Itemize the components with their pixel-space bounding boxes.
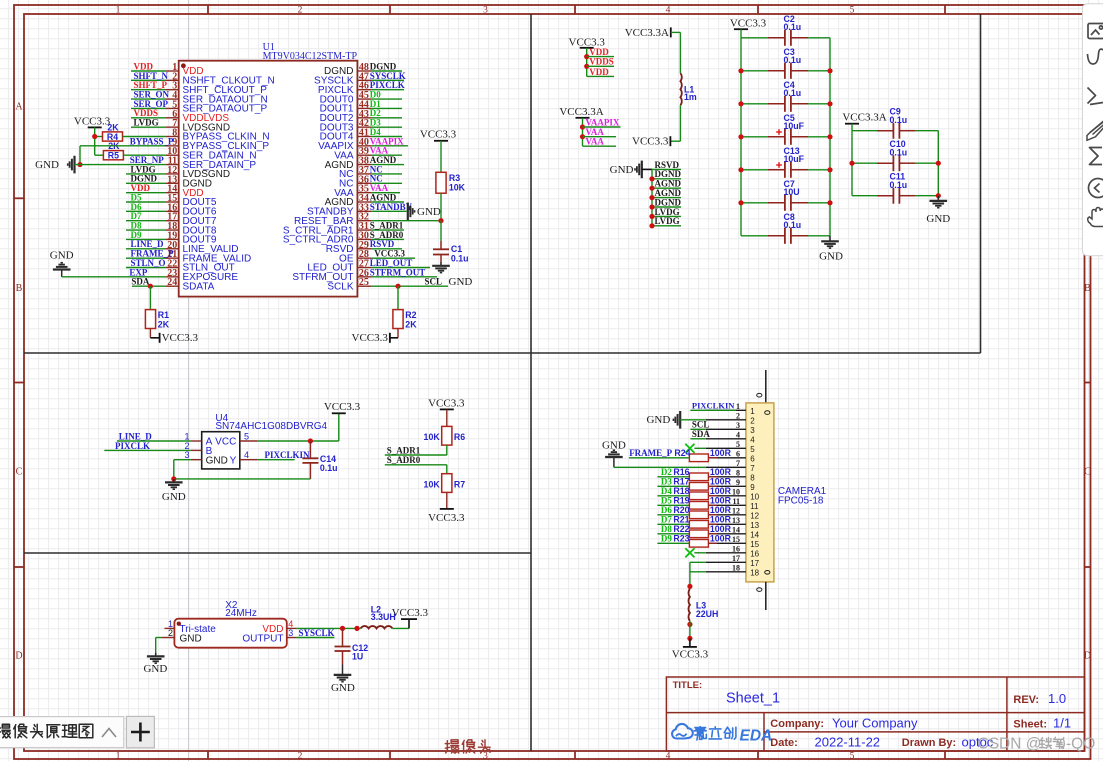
U1 pin 41 DOUT4	[357, 135, 371, 137]
capacitor C10	[852, 162, 877, 164]
wire VCC to VCC3.3	[257, 440, 339, 442]
svg-text:15: 15	[732, 535, 740, 544]
capacitor C11	[852, 195, 877, 197]
svg-text:100R: 100R	[710, 467, 732, 477]
capacitor C4	[741, 103, 768, 105]
svg-text:D2: D2	[661, 467, 672, 477]
svg-text:7: 7	[736, 459, 740, 468]
svg-text:Your Company: Your Company	[832, 716, 918, 731]
svg-text:24MHz: 24MHz	[225, 608, 257, 619]
wire gnd net AGND row3	[652, 187, 681, 189]
U1 pin 33 STANDBY	[357, 210, 371, 212]
svg-text:3: 3	[483, 5, 488, 15]
svg-text:2K: 2K	[405, 319, 417, 329]
U1 pin 27 LED_OUT	[357, 266, 371, 268]
toolbar icon rotate	[1089, 179, 1103, 198]
svg-text:100R: 100R	[710, 496, 732, 506]
svg-text:Date:: Date:	[770, 737, 798, 749]
X2 pin 4 VDD	[287, 627, 297, 629]
power flag VCC3.3 below R7	[446, 492, 448, 509]
svg-text:0.1u: 0.1u	[784, 88, 802, 98]
U1 pin 31 S_CTRL_ADR1	[357, 229, 371, 231]
wire gnd net DGND row5	[652, 206, 681, 208]
wire Y PIXCLKIN	[257, 459, 295, 461]
svg-text:EDA: EDA	[740, 727, 773, 744]
svg-text:VCC3.3A: VCC3.3A	[625, 27, 669, 39]
junction left rail row C13	[738, 167, 743, 172]
junction VDD	[584, 54, 589, 59]
junction right rail row C4	[827, 101, 832, 106]
junction left rail row C4	[738, 101, 743, 106]
U1 pin 5 SER_DATAOUT_P	[165, 107, 178, 109]
svg-text:PIXCLKIN: PIXCLKIN	[265, 450, 311, 460]
svg-text:11: 11	[750, 502, 759, 511]
wire VAA net	[583, 136, 617, 138]
CAMERA1 pin 10 stub	[706, 495, 746, 497]
wire pin38	[371, 164, 404, 166]
svg-text:100R: 100R	[710, 448, 732, 458]
ground GND below cap bank 2	[937, 196, 939, 201]
logo JLCEDA text	[694, 727, 706, 741]
wire gnd pin2	[680, 419, 706, 421]
svg-text:SDA: SDA	[692, 429, 711, 439]
svg-text:7: 7	[750, 464, 755, 473]
wire pin29	[371, 248, 402, 250]
svg-text:12: 12	[750, 511, 759, 520]
svg-text:2022-11-22: 2022-11-22	[815, 735, 881, 750]
wire S_ADR0	[385, 464, 447, 466]
C5 polarity plus	[776, 131, 782, 133]
svg-text:0.1u: 0.1u	[784, 22, 802, 32]
U1 pin 28 OE	[357, 257, 371, 259]
svg-text:B: B	[16, 283, 23, 294]
U1 pin 18 DOUT8	[165, 229, 178, 231]
CAMERA1 pin 14 stub	[706, 533, 746, 535]
U1 pin 11 SER_DATAIN_P	[165, 164, 178, 166]
svg-text:22UH: 22UH	[696, 609, 719, 619]
junction left rail row C3	[738, 68, 743, 73]
wire pin37	[371, 173, 402, 175]
logo JLCEDA cloud	[672, 724, 693, 739]
svg-text:C: C	[1084, 467, 1091, 478]
power flag VCC3.3 at L2	[401, 618, 417, 620]
gnd rail	[651, 169, 653, 225]
U1 pin 10 SER_DATAIN_N	[165, 154, 178, 156]
junction gnd pin11	[77, 162, 82, 167]
ground GND below C1	[440, 262, 442, 266]
U1 pin 22 STLN_OUT	[165, 266, 178, 268]
svg-text:Y: Y	[230, 455, 237, 466]
svg-text:1U: 1U	[352, 652, 363, 662]
wire net LVDG pin12	[126, 173, 165, 175]
junction VCC C14	[308, 438, 313, 443]
wire net D9 pin19	[126, 238, 165, 240]
wire to R5	[95, 154, 104, 156]
wire PIXCLKIN to pin1	[690, 409, 736, 411]
U1 pin 38 AGND	[357, 164, 371, 166]
wire pin48	[371, 70, 402, 72]
CAMERA1 pin 17 stub	[706, 561, 746, 563]
wire R6 to S_ADR1	[446, 445, 448, 455]
wire VCC3.3 to R4/R5	[94, 127, 96, 155]
U1 pin 26 STFRM_OUT	[357, 276, 371, 278]
wire L1 top	[671, 31, 681, 33]
svg-text:14: 14	[732, 526, 740, 535]
resistor R18 100R	[657, 495, 689, 497]
junction SCL R2	[395, 284, 400, 289]
inductor L3	[689, 589, 690, 621]
CAMERA1 inner pad top	[765, 411, 770, 415]
svg-text:LVDG: LVDG	[134, 118, 159, 128]
section divider vertical middle	[530, 14, 532, 751]
svg-text:SCLK: SCLK	[327, 281, 353, 292]
svg-text:D3: D3	[661, 477, 672, 487]
wire S_ADR1	[385, 454, 447, 456]
svg-text:16: 16	[750, 549, 759, 558]
svg-text:17: 17	[732, 554, 740, 563]
junction VAA	[580, 134, 585, 139]
wire L3 to VCC3.3	[689, 621, 691, 639]
svg-text:2: 2	[736, 412, 740, 421]
svg-text:0.1u: 0.1u	[451, 254, 469, 264]
svg-text:100R: 100R	[710, 515, 732, 525]
CAMERA1 pin 11 stub	[706, 504, 746, 506]
U1 pin 44 DOUT1	[357, 107, 371, 109]
junction C12	[340, 626, 345, 631]
wire net FRAME_P pin21	[126, 257, 165, 259]
U1 pin 46 PIXCLK	[357, 89, 371, 91]
wire R4 to pin8	[123, 135, 166, 137]
svg-text:0.1u: 0.1u	[320, 463, 338, 473]
wire pin33	[371, 210, 407, 212]
U1 pin 23 EXPOSURE	[165, 276, 178, 278]
svg-text:16: 16	[732, 545, 740, 554]
U1 pin 35 VAA	[357, 192, 371, 194]
svg-text:FRAME_P: FRAME_P	[629, 448, 672, 458]
junction L3 bottom	[687, 622, 692, 627]
svg-text:R7: R7	[454, 479, 465, 489]
U1 pin-1 dot	[181, 63, 186, 68]
svg-text:18: 18	[750, 568, 759, 577]
svg-text:D5: D5	[661, 496, 672, 506]
U1 pin 20 LINE_VALID	[165, 248, 178, 250]
wire pin45	[371, 98, 402, 100]
capacitor C1	[440, 241, 442, 249]
wire VAA net 2	[583, 145, 617, 147]
svg-text:BYPASS_P: BYPASS_P	[130, 136, 174, 146]
wire pin32	[371, 220, 441, 222]
ground GND below U4	[173, 479, 175, 483]
svg-text:GND: GND	[180, 634, 202, 645]
svg-text:5: 5	[244, 432, 249, 442]
svg-text:VAAPIX: VAAPIX	[586, 117, 620, 127]
svg-text:5: 5	[750, 445, 755, 454]
U1 pin 42 DOUT3	[357, 126, 371, 128]
svg-text:GND: GND	[143, 663, 167, 675]
svg-text:10: 10	[732, 488, 740, 497]
svg-text:-QO: -QO	[1066, 736, 1095, 753]
svg-text:PIXCLKIN: PIXCLKIN	[692, 401, 735, 411]
wire junction down to C1	[440, 221, 442, 241]
U4 pin 2 B	[191, 449, 202, 451]
svg-text:10K: 10K	[424, 479, 441, 489]
X2 pin-1 dot	[177, 622, 181, 626]
sheet name bottom center	[445, 740, 459, 753]
wire net VDDS pin6	[131, 117, 165, 119]
CAMERA1 pin 6 stub	[706, 457, 746, 459]
power flag VCC3.3 below R2	[397, 329, 399, 338]
gate U4 body	[202, 432, 240, 469]
wire R3 to junction	[440, 193, 442, 221]
svg-text:4: 4	[666, 752, 671, 761]
svg-text:5: 5	[850, 5, 855, 15]
wire net VDD pin1	[131, 70, 165, 72]
U1 pin 34 AGND	[357, 201, 371, 203]
wire PIXCLK to U4 pin2	[104, 449, 190, 451]
svg-text:VCC3.3: VCC3.3	[428, 398, 465, 410]
sheet tab	[0, 717, 124, 748]
svg-text:100R: 100R	[710, 486, 732, 496]
wire VDD net	[587, 56, 614, 58]
svg-text:R20: R20	[673, 505, 689, 515]
U1 pin 48 DGND	[357, 70, 371, 72]
resistor R5	[103, 151, 123, 160]
power flag VCC3.3 at U4	[338, 413, 340, 441]
resistor R21 100R	[657, 523, 689, 525]
svg-text:SN74AHC1G08DBVRG4: SN74AHC1G08DBVRG4	[215, 421, 327, 432]
wire pin17 pin18 to L3	[690, 561, 706, 563]
svg-text:Company:: Company:	[770, 718, 824, 730]
svg-text:C: C	[16, 467, 23, 478]
wire gnd net LVDG row7	[652, 225, 681, 227]
svg-text:1: 1	[116, 752, 121, 761]
resistor R23 100R	[657, 542, 689, 544]
svg-text:MT9V034C12STM-TP: MT9V034C12STM-TP	[263, 51, 358, 62]
svg-text:D6: D6	[661, 505, 672, 515]
svg-text:100R: 100R	[710, 505, 732, 515]
wire R5 to pin10	[123, 154, 165, 156]
section divider vertical right	[980, 14, 982, 353]
svg-text:2: 2	[168, 628, 173, 638]
svg-text:9: 9	[736, 478, 740, 487]
svg-text:10uF: 10uF	[784, 154, 805, 164]
wire net D6 pin16	[126, 210, 165, 212]
svg-text:VCC3.3: VCC3.3	[632, 136, 669, 148]
toolbar icon sigma	[1090, 148, 1103, 165]
wire pin31	[371, 229, 404, 231]
svg-text:13: 13	[732, 516, 740, 525]
toolbar icon curve	[1088, 49, 1103, 64]
wire pin27	[371, 266, 430, 268]
wire net DGND pin13	[126, 182, 165, 184]
connector CAMERA1 top mounting line	[765, 370, 767, 403]
svg-text:5: 5	[736, 440, 740, 449]
svg-text:100R: 100R	[710, 477, 732, 487]
wire net D7 pin17	[126, 220, 165, 222]
U1 pin 6 VDDLVDS	[165, 117, 178, 119]
svg-text:R18: R18	[673, 486, 689, 496]
wire net VDD pin14	[126, 192, 165, 194]
wire L2 to VCC3.3	[392, 627, 409, 629]
svg-text:VDD: VDD	[589, 47, 609, 57]
svg-text:R24: R24	[674, 448, 690, 458]
U4 pin 3 GND	[191, 459, 202, 461]
svg-text:1: 1	[116, 5, 121, 15]
svg-text:GND: GND	[449, 276, 473, 288]
wire net SER_OP pin5	[131, 107, 165, 109]
wire L1 bottom	[679, 105, 681, 141]
svg-text:R22: R22	[673, 524, 689, 534]
section divider horizontal upper	[24, 352, 981, 354]
svg-text:100R: 100R	[710, 524, 732, 534]
svg-text:0.1u: 0.1u	[890, 180, 908, 190]
svg-text:REV:: REV:	[1013, 694, 1039, 706]
junction right rail row C7	[827, 200, 832, 205]
wire SYSCLK	[296, 637, 334, 639]
wire pin28	[371, 257, 415, 259]
U1 pin 30 S_CTRL_ADR0	[357, 238, 371, 240]
CAMERA1 pin 4 stub	[706, 438, 746, 440]
wire net D5 pin15	[126, 201, 165, 203]
svg-text:2K: 2K	[158, 319, 170, 329]
svg-text:0.1u: 0.1u	[784, 220, 802, 230]
cap bank2 left rail	[851, 131, 853, 196]
svg-text:R23: R23	[673, 534, 689, 544]
svg-text:100R: 100R	[710, 534, 732, 544]
junction right rail row C13	[827, 167, 832, 172]
svg-text:0.1u: 0.1u	[890, 148, 908, 158]
wire SDA pin4	[690, 438, 706, 440]
wire net STLN_O pin22	[126, 266, 165, 268]
wire pin25	[371, 285, 448, 287]
wire pin9 bend to gnd junction	[80, 145, 165, 147]
new sheet plus button	[126, 716, 154, 747]
svg-text:3: 3	[288, 628, 293, 638]
wire gnd to pin23 EXP	[61, 270, 63, 277]
connector CAMERA1 bottom mounting line	[765, 582, 767, 610]
svg-text:VCC3.3: VCC3.3	[672, 649, 709, 661]
svg-text:6: 6	[736, 450, 740, 459]
X2 pin 1 Tri-state	[165, 627, 175, 629]
svg-text:R6: R6	[454, 432, 465, 442]
svg-text:1/1: 1/1	[1053, 716, 1071, 731]
svg-text:SCL: SCL	[692, 420, 710, 430]
junction left rail row C5	[738, 134, 743, 139]
power flag VCC3.3 at L1 bottom	[669, 136, 671, 146]
svg-text:Sheet:: Sheet:	[1013, 719, 1047, 731]
cap bank right rail	[829, 38, 831, 236]
svg-text:D9: D9	[661, 534, 672, 544]
wire gnd to pin11	[75, 164, 166, 166]
svg-text:Drawn By:: Drawn By:	[902, 737, 956, 749]
svg-text:17: 17	[750, 559, 759, 568]
toolbar icon arrow	[1088, 88, 1103, 105]
svg-text:R19: R19	[673, 496, 689, 506]
svg-text:0.1u: 0.1u	[784, 55, 802, 65]
U1 pin 17 DOUT7	[165, 220, 178, 222]
junction SDA R1	[148, 284, 153, 289]
svg-text:0.1u: 0.1u	[890, 115, 908, 125]
power flag VCC3.3 below L3	[683, 646, 697, 648]
svg-text:CSDN @: CSDN @	[978, 736, 1042, 753]
svg-text:4: 4	[750, 435, 755, 444]
U1 pin 19 DOUT9	[165, 238, 178, 240]
U1 pin 29 RSVD	[357, 248, 371, 250]
U1 pin 25 SCLK	[357, 285, 371, 287]
right toolbar panel	[1082, 4, 1103, 256]
svg-text:VCC: VCC	[215, 437, 236, 448]
svg-text:GND: GND	[162, 491, 186, 503]
svg-text:4: 4	[666, 5, 671, 15]
svg-text:VCC3.3: VCC3.3	[162, 332, 199, 344]
wire net LINE_D pin20	[126, 248, 165, 250]
svg-text:GND: GND	[206, 455, 228, 466]
wire pin41	[371, 135, 402, 137]
CAMERA1 pin 9 stub	[706, 485, 746, 487]
wire net SHFT_N pin2	[131, 79, 165, 81]
CAMERA1 inner pad bottom	[765, 571, 770, 575]
svg-text:3: 3	[750, 426, 755, 435]
wire net SHFT_P pin3	[131, 89, 165, 91]
capacitor C3	[741, 70, 768, 72]
resistor R24 100R	[629, 457, 690, 459]
svg-text:10K: 10K	[424, 432, 441, 442]
svg-text:2: 2	[750, 416, 755, 425]
toolbar icon pencil	[1087, 121, 1103, 140]
svg-text:A: A	[15, 102, 23, 113]
svg-text:VCC3.3: VCC3.3	[428, 512, 465, 524]
ground GND below X2	[155, 653, 157, 657]
capacitor C9	[852, 130, 877, 132]
wire net LVDG pin7	[131, 126, 165, 128]
wire SCL pin3	[690, 428, 706, 430]
svg-text:S_ADR1: S_ADR1	[387, 445, 421, 455]
svg-text:GND: GND	[610, 164, 634, 176]
junction bank2 right C11	[936, 193, 941, 198]
wire pin47	[371, 79, 404, 81]
CAMERA1 pin 13 stub	[706, 523, 746, 525]
inductor L1	[680, 73, 681, 105]
U1 pin 32 RESET_BAR	[357, 220, 371, 222]
svg-text:VCC3.3: VCC3.3	[74, 116, 111, 128]
wire net SER_ON pin4	[131, 98, 165, 100]
junction VCC3.3 stem	[687, 636, 692, 641]
wire pin36	[371, 182, 402, 184]
junction right rail row C3	[827, 68, 832, 73]
svg-text:8: 8	[750, 473, 755, 482]
wire X2 gnd	[156, 637, 162, 639]
U1 pin 14 VDD	[165, 192, 178, 194]
svg-text:R17: R17	[673, 477, 689, 487]
svg-text:S_ADR0: S_ADR0	[387, 455, 421, 465]
svg-text:VCC3.3: VCC3.3	[420, 129, 457, 141]
svg-text:GND: GND	[819, 251, 843, 263]
svg-text:VCC3.3: VCC3.3	[392, 607, 429, 619]
capacitor C7	[741, 202, 768, 204]
svg-text:12: 12	[732, 507, 740, 516]
CAMERA1 pin 15 stub	[706, 542, 746, 544]
CAMERA1 pin 2 stub	[706, 419, 746, 421]
svg-text:2: 2	[298, 5, 303, 15]
U1 pin 47 SYSCLK	[357, 79, 371, 81]
svg-text:GND: GND	[50, 250, 74, 262]
svg-text:VAA: VAA	[586, 137, 605, 147]
resistor R6	[442, 426, 452, 445]
U1 pin 16 DOUT6	[165, 210, 178, 212]
ground GND below C12	[342, 665, 344, 675]
svg-text:VCC3.3: VCC3.3	[730, 18, 767, 30]
junction L3 top	[687, 584, 692, 589]
